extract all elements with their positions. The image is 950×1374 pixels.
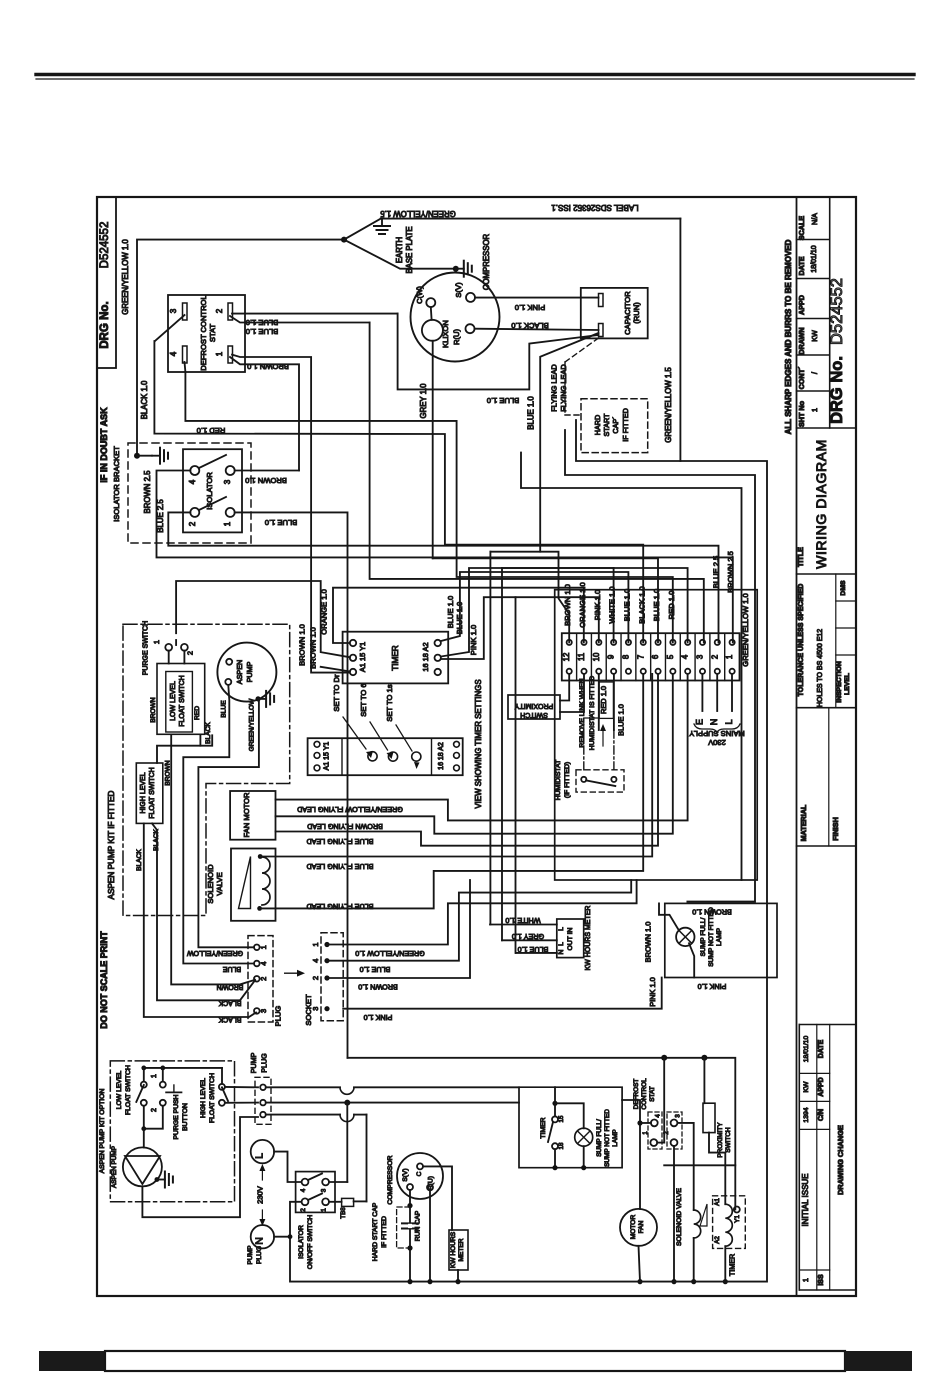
svg-text:BROWN FLYING LEAD: BROWN FLYING LEAD [307, 822, 383, 831]
isolator terminal 4 [190, 466, 199, 475]
wire brown 2.5 from isolator4 [157, 471, 733, 643]
wire wrap 461 left [576, 420, 680, 461]
svg-text:SWITCH: SWITCH [520, 711, 548, 718]
wire lamp diag top [659, 903, 679, 930]
wire purge stub [162, 1068, 164, 1082]
svg-text:FLOAT SWITCH: FLOAT SWITCH [209, 1073, 216, 1123]
wire brown defrost1 a [232, 355, 350, 673]
capacitor terminal bottom [599, 324, 604, 337]
timer settings strip box [308, 738, 463, 775]
wire blue 2.5 from isolator2 [168, 512, 718, 642]
plug-socket arrow [285, 972, 299, 974]
svg-text:WHITE 1.0: WHITE 1.0 [608, 586, 617, 623]
wire grey from CW [432, 341, 434, 559]
wire grey vert [501, 568, 503, 940]
wire C to meter [423, 1166, 452, 1230]
svg-text:INSPECTION: INSPECTION [836, 661, 843, 703]
svg-text:SOLENOID VALVE: SOLENOID VALVE [676, 1188, 683, 1246]
svg-text:ASPEN PUMP: ASPEN PUMP [111, 1146, 118, 1188]
N circle [251, 1225, 274, 1248]
title cell line appd [797, 318, 830, 320]
svg-text:C(W): C(W) [415, 286, 424, 304]
wire prox to tb11 [560, 674, 584, 712]
svg-text:BLACK 1.0: BLACK 1.0 [140, 380, 149, 419]
sump lamp cross main [679, 931, 692, 944]
svg-text:BLUE 1.0: BLUE 1.0 [246, 327, 279, 336]
wire defrost1 out [657, 1142, 664, 1144]
flow pump triangle [125, 1156, 160, 1184]
svg-text:BROWN 1.0: BROWN 1.0 [247, 362, 289, 371]
tb8 box [342, 1198, 354, 1206]
wire motor fan riser [639, 1123, 641, 1209]
svg-text:WIRING DIAGRAM: WIRING DIAGRAM [813, 439, 829, 569]
aspen pump kit dashdot box [123, 624, 290, 915]
wire socket gy [327, 880, 637, 945]
node defrost2 rail [671, 1279, 676, 1284]
wire solenoid to rail [693, 1238, 695, 1282]
flow lamp cross [578, 1131, 591, 1144]
svg-text:DRG No.: DRG No. [99, 301, 111, 348]
timer terminal A1 [350, 669, 356, 675]
dms cell line3 [836, 654, 856, 656]
svg-text:4: 4 [311, 959, 320, 963]
wire blue into 6 [433, 558, 658, 642]
svg-text:3: 3 [259, 1009, 268, 1013]
svg-text:R(U): R(U) [452, 329, 461, 345]
node fan rail [637, 1279, 642, 1284]
flow defrost dashed box a [648, 1112, 662, 1149]
svg-text:BLUE 1.0: BLUE 1.0 [527, 396, 536, 430]
svg-text:3: 3 [675, 1114, 681, 1118]
ts circle r1 [454, 741, 460, 747]
svg-text:1: 1 [223, 521, 232, 526]
svg-text:18: 18 [558, 1142, 565, 1149]
svg-text:8: 8 [621, 655, 630, 659]
svg-text:HUMIDISTAT: HUMIDISTAT [555, 760, 562, 801]
svg-text:LAMP: LAMP [716, 927, 723, 946]
terminal R(U) [466, 324, 475, 333]
wire black1 down [144, 823, 256, 1017]
svg-text:BLACK 1.0: BLACK 1.0 [637, 586, 646, 624]
svg-text:BROWN: BROWN [150, 697, 157, 723]
flow kw meter box [449, 1230, 468, 1270]
svg-text:L: L [724, 719, 734, 724]
svg-text:2: 2 [188, 521, 197, 526]
svg-text:TIMER: TIMER [391, 645, 400, 671]
svg-text:INITIAL ISSUE: INITIAL ISSUE [801, 1173, 810, 1226]
flow defrost contact 4 [651, 1120, 658, 1127]
svg-text:D524552: D524552 [828, 278, 846, 345]
svg-text:PINK 1.0: PINK 1.0 [648, 977, 657, 1007]
wire defrost1 riser [663, 1058, 665, 1143]
svg-text:BROWN 2.5: BROWN 2.5 [143, 470, 152, 514]
svg-text:GREEN/YELLOW FLYING LEAD: GREEN/YELLOW FLYING LEAD [297, 805, 403, 814]
svg-text:FLOAT SWITCH: FLOAT SWITCH [149, 767, 156, 818]
svg-text:SET TO 6: SET TO 6 [359, 683, 368, 716]
svg-text:VIEW SHOWING TIMER SETTINGS: VIEW SHOWING TIMER SETTINGS [474, 679, 483, 808]
svg-text:18/01/10: 18/01/10 [811, 245, 818, 272]
svg-text:9: 9 [607, 655, 616, 659]
flow rail R1 [266, 1086, 340, 1088]
L circle [251, 1140, 274, 1163]
svg-text:1: 1 [803, 1278, 810, 1282]
wire fan blue lead [276, 674, 659, 846]
svg-text:(RUN): (RUN) [632, 302, 641, 324]
svg-text:ORANGE 1.0: ORANGE 1.0 [578, 582, 587, 628]
svg-text:230V: 230V [255, 1185, 264, 1204]
svg-text:2: 2 [710, 655, 719, 659]
flow sump box [519, 1087, 622, 1168]
material finish bottom [797, 845, 857, 847]
svg-text:N: N [558, 949, 565, 954]
svg-text:FAN: FAN [638, 1220, 645, 1233]
svg-text:L: L [253, 1153, 265, 1159]
svg-text:S(V): S(V) [454, 282, 463, 298]
wire L down [731, 674, 733, 711]
humidistat blade [586, 780, 615, 786]
svg-text:TB8: TB8 [340, 1207, 347, 1219]
svg-text:KW: KW [810, 330, 819, 342]
svg-text:IF FITTED: IF FITTED [381, 1216, 388, 1248]
wire gy to compressor earth [344, 240, 456, 269]
flow isolator terminal 1 [322, 1198, 329, 1205]
svg-text:SUMP NOT FITTED: SUMP NOT FITTED [604, 1109, 611, 1167]
wire white to meter [490, 924, 557, 926]
wire pump bottom loop [142, 1117, 258, 1217]
wire to pump top [143, 1129, 145, 1148]
revision row appd [799, 1100, 829, 1102]
drg no corner box [97, 197, 116, 368]
svg-text:VALVE: VALVE [215, 872, 224, 895]
wire brown into 12 [490, 552, 569, 643]
ts circle l2 [314, 753, 320, 759]
svg-text:ALL SHARP EDGES AND BURRS TO B: ALL SHARP EDGES AND BURRS TO BE REMOVED [784, 239, 793, 434]
svg-text:BLUE 1.0: BLUE 1.0 [518, 945, 549, 954]
svg-text:LAMP: LAMP [612, 1129, 619, 1146]
wire wrap 488 [521, 453, 742, 880]
svg-text:GREEN/YELLOW 1.0: GREEN/YELLOW 1.0 [355, 949, 425, 958]
svg-text:APPD: APPD [797, 295, 806, 315]
title block mid divider [829, 197, 831, 428]
svg-text:CAP´: CAP´ [611, 416, 620, 433]
flow defrost contact 3 [671, 1120, 678, 1127]
svg-text:DATE: DATE [818, 1039, 825, 1058]
svg-text:2: 2 [311, 976, 320, 980]
wire white into 9b [613, 568, 615, 642]
wire solenoid top lead [260, 674, 652, 857]
pump plug dashed box [255, 1077, 271, 1124]
node flow timer tap [552, 1101, 557, 1106]
flow low level contact bottom [141, 1100, 147, 1106]
svg-text:C: C [416, 1171, 423, 1176]
ts circle r3 [454, 765, 460, 771]
footer outlined bar [105, 1351, 845, 1371]
svg-text:Y1: Y1 [734, 1215, 741, 1223]
wire gy into cell3 [370, 323, 704, 643]
svg-text:FLYING LEAD: FLYING LEAD [559, 364, 568, 412]
svg-text:GREEN/YELLOW 1.0: GREEN/YELLOW 1.0 [121, 239, 130, 315]
red link box [599, 682, 613, 718]
wire purge1 to ll [168, 651, 170, 664]
svg-text:18/01/10: 18/01/10 [803, 1036, 810, 1063]
svg-text:PUMP: PUMP [247, 1245, 254, 1265]
revision row date [799, 1072, 829, 1074]
wire blue A2 [441, 572, 629, 642]
socket pins [324, 942, 329, 947]
purge switch stem [175, 640, 177, 645]
svg-text:HUMIDISTAT IS FITTED: HUMIDISTAT IS FITTED [589, 676, 596, 750]
terminal C(W) [426, 298, 435, 307]
svg-text:PLUG: PLUG [274, 1006, 283, 1027]
capacitor terminal top [599, 294, 604, 307]
wire A2 down [724, 1246, 726, 1281]
svg-text:WHITE 1.0: WHITE 1.0 [505, 916, 540, 925]
wire hl2 to plug2 [225, 1102, 258, 1104]
svg-text:N/A: N/A [810, 213, 819, 225]
page top rule thin [36, 78, 914, 80]
wire e brace left [565, 430, 755, 902]
earth base plate symbol [381, 219, 383, 226]
svg-text:3: 3 [695, 655, 704, 659]
wire blue defrost2 a [232, 313, 398, 315]
pump plug pin1 [260, 1085, 266, 1091]
svg-text:R(U): R(U) [427, 1176, 434, 1190]
svg-text:DATE: DATE [797, 256, 806, 275]
dms cell line [836, 600, 856, 602]
humidistat dashed box [576, 770, 624, 792]
wire pink to socket [343, 978, 662, 1009]
timer terminal A2 [435, 640, 441, 646]
plug dashed box [248, 936, 273, 1022]
wire prox to coil [709, 1133, 725, 1205]
hard start dashed box flow [397, 1207, 410, 1248]
flying lead dashed vert [564, 362, 566, 415]
wire lamp pink down [689, 943, 694, 977]
svg-text:ON/OFF SWITCH: ON/OFF SWITCH [307, 1215, 314, 1269]
compressor circle [411, 273, 500, 362]
aspen pump terminal 2 [225, 679, 231, 685]
aspen pump circle main [217, 643, 276, 702]
svg-text:DRAWING CHANGE: DRAWING CHANGE [836, 1125, 845, 1195]
isolator terminal 2 [190, 508, 199, 517]
flow hl blade [222, 1087, 228, 1101]
svg-text:BLACK: BLACK [218, 1016, 241, 1023]
wire gy down [198, 701, 259, 947]
node kit rail b [160, 1066, 165, 1071]
svg-text:PINK 1.0: PINK 1.0 [593, 590, 602, 620]
svg-text:CAPACITOR: CAPACITOR [623, 291, 632, 335]
wire black from defrost3 [154, 341, 643, 642]
wire blue defrost2 b [230, 316, 370, 323]
svg-text:MOTOR: MOTOR [630, 1215, 637, 1240]
node sv cap top [407, 1203, 412, 1208]
wire socket brown [327, 880, 470, 978]
wire blue cap diag a [540, 333, 598, 552]
sump lamp box main [665, 903, 777, 977]
svg-text:BLUE 1.0: BLUE 1.0 [265, 518, 298, 527]
set to 1s leader [396, 725, 412, 751]
wire lamp branch [555, 1103, 584, 1128]
material divider [828, 708, 830, 846]
defrost terminal 3 [183, 303, 188, 320]
svg-text:SHT No: SHT No [797, 400, 806, 427]
svg-text:L: L [558, 942, 565, 946]
revision left edge [798, 1025, 800, 1291]
svg-text:4: 4 [656, 1114, 662, 1118]
svg-text:7: 7 [636, 655, 645, 659]
svg-text:A1 15 Y1: A1 15 Y1 [324, 742, 331, 771]
svg-text:N: N [253, 1237, 265, 1245]
svg-text:GREY 1.0: GREY 1.0 [512, 932, 544, 941]
run cap gap mask [408, 1224, 412, 1228]
wire fan gy lead [276, 674, 688, 821]
svg-text:PROXIMITY: PROXIMITY [514, 702, 553, 709]
svg-text:2: 2 [185, 651, 194, 655]
svg-text:DEFROST: DEFROST [633, 1079, 640, 1110]
svg-text:HIGH LEVEL: HIGH LEVEL [200, 1078, 207, 1118]
proximity switch box main [508, 695, 560, 719]
svg-text:BLUE 1.0: BLUE 1.0 [455, 602, 464, 635]
flow kit top rail [144, 1067, 222, 1069]
wire neutral distribution [348, 1058, 736, 1210]
svg-text:BLUE 1.0: BLUE 1.0 [360, 965, 391, 974]
isolator terminal 1 [226, 508, 235, 517]
compressor earth symbol [456, 268, 464, 270]
tolerance section bottom [797, 707, 857, 709]
flow isolator blade43 [308, 1174, 322, 1181]
svg-text:BLACK: BLACK [205, 722, 212, 744]
wire white into 9 [502, 567, 614, 569]
svg-text:1394: 1394 [803, 1107, 810, 1122]
svg-text:BLUE: BLUE [221, 700, 228, 718]
wire hl to plug1 [225, 1086, 258, 1088]
revision row iss [799, 1269, 829, 1271]
wire brown timerA1 diag [321, 667, 350, 672]
svg-text:3: 3 [223, 479, 232, 484]
svg-text:COMPRESSOR: COMPRESSOR [387, 1155, 394, 1204]
svg-text:PLUG: PLUG [260, 1053, 269, 1073]
svg-text:(IF FITTED): (IF FITTED) [564, 762, 571, 798]
wire sump to defrost [622, 1100, 640, 1123]
node N rail [288, 1234, 293, 1239]
timer settings left divider [341, 738, 343, 775]
svg-text:BASE PLATE: BASE PLATE [405, 226, 414, 273]
timer terminal Y1 [350, 640, 356, 646]
svg-text:DEFROST CONTROL: DEFROST CONTROL [199, 295, 208, 370]
wire grey to meter [502, 939, 557, 941]
ts pot 3 [412, 752, 421, 761]
wire RU down [429, 1190, 431, 1281]
svg-text:/: / [810, 372, 819, 374]
svg-text:230V: 230V [707, 738, 726, 747]
wire red from defrost4 [185, 362, 673, 642]
flow RU terminal [427, 1184, 433, 1190]
svg-text:A1: A1 [714, 1198, 721, 1206]
timer settings right divider [431, 738, 433, 775]
svg-text:12: 12 [562, 653, 571, 662]
svg-text:OUT IN: OUT IN [567, 927, 574, 950]
svg-text:BROWN 1.0: BROWN 1.0 [309, 627, 318, 669]
page top rule thick [36, 73, 914, 76]
wire E down [701, 674, 703, 711]
revision block top [799, 1024, 856, 1026]
title cell line drawn [797, 354, 830, 356]
svg-text:HOLES TO BS 4500 E12: HOLES TO BS 4500 E12 [817, 629, 824, 707]
svg-text:10: 10 [592, 652, 601, 661]
terminal strip assembly frame [555, 590, 758, 880]
node meter rail [455, 1279, 460, 1284]
svg-text:ISOLATOR: ISOLATOR [298, 1225, 305, 1259]
isolator terminal 3 [226, 466, 235, 475]
terminal S(V) [466, 293, 475, 302]
svg-text:FAN MOTOR: FAN MOTOR [242, 792, 251, 838]
node 18 rail [552, 1165, 557, 1170]
svg-text:BLACK 1.0: BLACK 1.0 [511, 321, 549, 330]
flow compressor circle [397, 1153, 443, 1199]
wire black2 down [152, 823, 255, 1000]
terminal strip box [562, 633, 740, 680]
svg-text:IF FITTED: IF FITTED [621, 408, 630, 442]
svg-text:RUN CAP: RUN CAP [415, 1210, 422, 1241]
svg-text:BROWN 1.0: BROWN 1.0 [358, 983, 398, 992]
svg-text:ASPEN PUMP KIT OPTION: ASPEN PUMP KIT OPTION [99, 1089, 106, 1174]
svg-text:PINK 1.0: PINK 1.0 [698, 982, 727, 991]
svg-text:BROWN 1.0: BROWN 1.0 [563, 584, 572, 626]
flow SV terminal [407, 1184, 413, 1190]
svg-text:CONT´: CONT´ [797, 366, 806, 389]
title cell [797, 573, 857, 575]
flow purge contact bottom [160, 1100, 166, 1106]
flow lamp circle [575, 1128, 593, 1146]
wire brown down [171, 735, 255, 984]
svg-text:RED 1.0: RED 1.0 [667, 591, 676, 620]
defrost control stat box [168, 295, 245, 372]
wire blue 1.0 from isolator1 [235, 512, 348, 1057]
plug pins [254, 945, 260, 951]
svg-text:TITLE: TITLE [796, 547, 805, 567]
svg-text:BLACK: BLACK [218, 999, 241, 1006]
svg-text:C/N: C/N [818, 1109, 825, 1121]
svg-text:S(V): S(V) [402, 1168, 409, 1181]
wire defrost3 right [677, 1123, 693, 1210]
svg-text:STAT: STAT [208, 324, 217, 343]
flying lead dashed horiz [565, 414, 581, 416]
flow low level blade [136, 1085, 144, 1102]
wire gy 1.5 horizontal [381, 218, 681, 220]
wire tb8 right [354, 1200, 367, 1202]
svg-text:CONTROL: CONTROL [641, 1078, 648, 1110]
svg-text:4: 4 [259, 961, 268, 965]
wire blue 18 [441, 568, 688, 657]
flow timer blade [548, 1122, 553, 1142]
svg-text:1: 1 [311, 942, 320, 946]
svg-text:BLUE FLYING LEAD: BLUE FLYING LEAD [307, 862, 374, 871]
svg-text:LABEL SDS26352 ISS.1: LABEL SDS26352 ISS.1 [551, 203, 639, 212]
svg-text:PINK 1.0: PINK 1.0 [469, 625, 478, 655]
svg-text:MAINS SUPPLY: MAINS SUPPLY [689, 729, 745, 738]
svg-text:4: 4 [300, 1188, 307, 1192]
isolator blade 2-1 [199, 497, 226, 510]
title cell line scale [797, 239, 830, 241]
svg-text:ASPEN PUMP KIT IF FITTED: ASPEN PUMP KIT IF FITTED [107, 790, 116, 899]
solenoid wedge [239, 857, 251, 909]
svg-text:BLUE 2.5: BLUE 2.5 [156, 499, 165, 533]
set to 6 leader [370, 722, 388, 750]
flow timer coil [725, 1204, 732, 1246]
svg-text:PLUG: PLUG [256, 1246, 263, 1264]
svg-text:4: 4 [169, 351, 178, 356]
timer terminal 16 [435, 669, 441, 675]
